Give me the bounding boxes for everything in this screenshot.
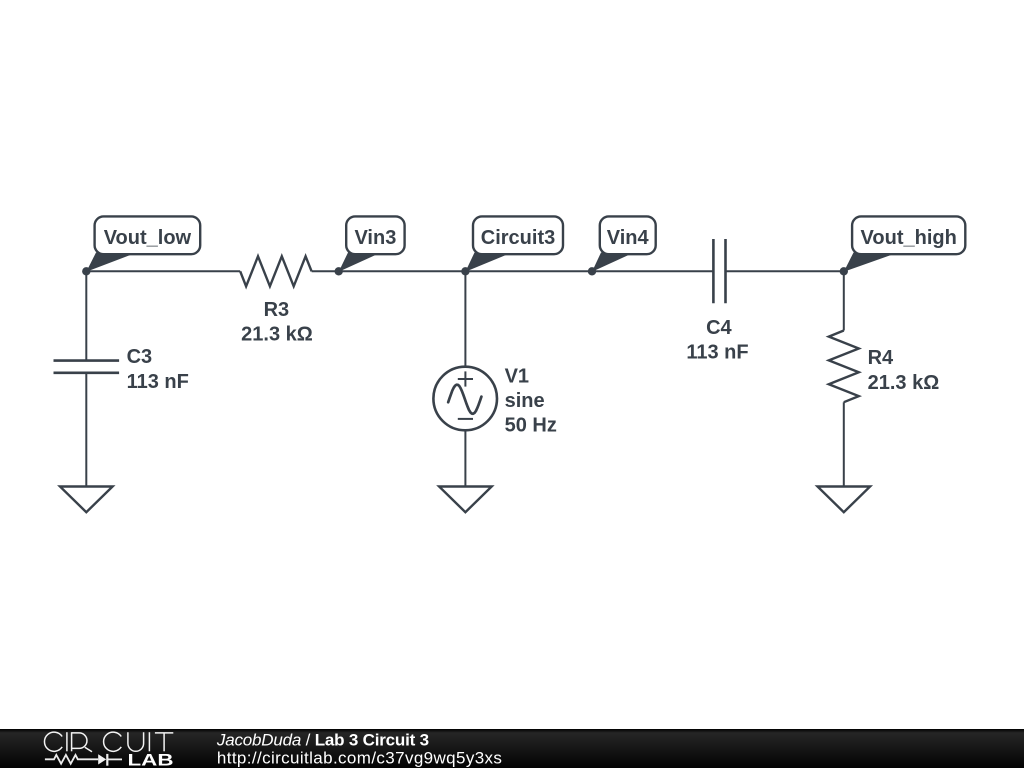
svg-text:LAB: LAB bbox=[128, 750, 174, 768]
svg-text:Circuit3: Circuit3 bbox=[481, 227, 555, 249]
svg-text:V1: V1 bbox=[505, 366, 529, 388]
svg-text:113 nF: 113 nF bbox=[686, 342, 748, 364]
svg-text:Vin4: Vin4 bbox=[607, 227, 650, 249]
svg-text:sine: sine bbox=[505, 390, 545, 412]
svg-text:http://circuitlab.com/c37vg9wq: http://circuitlab.com/c37vg9wq5y3xs bbox=[217, 749, 502, 768]
svg-text:113 nF: 113 nF bbox=[127, 371, 189, 393]
svg-text:Vin3: Vin3 bbox=[354, 227, 396, 249]
svg-text:C4: C4 bbox=[706, 317, 732, 339]
svg-text:Vout_high: Vout_high bbox=[861, 227, 957, 249]
svg-text:21.3 kΩ: 21.3 kΩ bbox=[868, 372, 940, 394]
svg-text:R4: R4 bbox=[868, 347, 894, 369]
svg-text:21.3 kΩ: 21.3 kΩ bbox=[241, 324, 313, 346]
svg-text:Vout_low: Vout_low bbox=[104, 227, 192, 249]
svg-text:50 Hz: 50 Hz bbox=[505, 415, 557, 437]
svg-text:R3: R3 bbox=[264, 299, 290, 321]
svg-text:C3: C3 bbox=[127, 346, 153, 368]
svg-text:JacobDuda / Lab 3 Circuit 3: JacobDuda / Lab 3 Circuit 3 bbox=[216, 730, 429, 749]
